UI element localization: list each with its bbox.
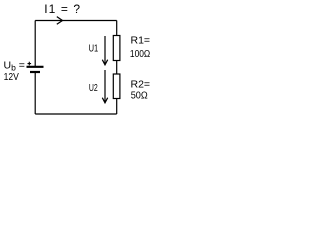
svg-text:100Ω: 100Ω [130,48,150,60]
wire middle stub [116,61,118,75]
svg-text:U1: U1 [89,43,99,55]
wire top [35,20,117,22]
svg-text:R1=: R1= [131,35,151,47]
battery label Ub = 12V [4,60,25,83]
wire left upper [34,21,36,67]
wire lower stub [116,99,118,115]
svg-text:I1 = ?: I1 = ? [44,2,81,16]
voltage arrow U1 [102,36,107,65]
svg-text:12V: 12V [4,71,19,83]
svg-text:50Ω: 50Ω [131,90,148,102]
wire left lower [34,73,36,115]
battery Ub [27,62,44,72]
label R2 value [131,79,151,102]
current arrow I1 [57,17,63,25]
wire right upper [116,21,118,36]
label R1 value [130,35,150,60]
svg-text:U2: U2 [89,82,98,94]
wire bottom [35,113,117,115]
resistor R1 [113,36,120,61]
voltage arrow U2 [102,70,107,103]
resistor R2 [113,74,120,99]
